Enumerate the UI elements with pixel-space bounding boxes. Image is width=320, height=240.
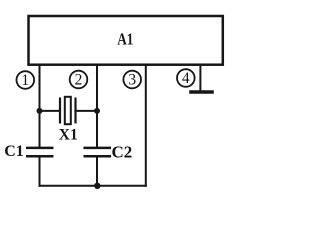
crystal X1 left plate bbox=[59, 98, 61, 124]
wire C1 bottom bbox=[39, 156, 41, 187]
junction node pin1/X1 bbox=[37, 108, 43, 114]
svg-text:X1: X1 bbox=[59, 127, 78, 144]
wire crystal right bbox=[77, 110, 98, 112]
svg-text:1: 1 bbox=[21, 72, 29, 89]
pin 2 circle bbox=[70, 71, 88, 89]
svg-text:4: 4 bbox=[182, 70, 190, 87]
ground bbox=[189, 90, 214, 93]
svg-text:C1: C1 bbox=[4, 143, 24, 160]
pin 3 circle bbox=[123, 71, 141, 89]
wire pin3 vertical bbox=[145, 65, 147, 187]
pin 4 circle bbox=[177, 69, 195, 87]
wire bottom bus bbox=[39, 185, 147, 187]
junction node bottom bus bbox=[94, 183, 100, 189]
svg-text:3: 3 bbox=[128, 71, 136, 88]
capacitor C1 bottom plate bbox=[26, 155, 54, 158]
capacitor C2 bottom plate bbox=[84, 155, 112, 158]
svg-text:2: 2 bbox=[75, 71, 83, 88]
wire pin2 vertical bbox=[96, 65, 98, 147]
wire pin4 ground stub bbox=[199, 65, 201, 92]
svg-text:A1: A1 bbox=[117, 31, 133, 49]
wire crystal left bbox=[40, 110, 60, 112]
capacitor C2 top plate bbox=[84, 147, 112, 150]
crystal X1 right plate bbox=[74, 98, 76, 124]
wire C2 bottom bbox=[96, 156, 98, 187]
IC block A1 bbox=[29, 16, 223, 65]
junction node pin2/X1 bbox=[94, 108, 100, 114]
capacitor C1 top plate bbox=[26, 147, 54, 150]
pin 1 circle bbox=[17, 71, 35, 89]
svg-text:C2: C2 bbox=[112, 143, 133, 162]
crystal X1 body bbox=[65, 97, 71, 124]
wire pin1 vertical bbox=[39, 65, 41, 147]
